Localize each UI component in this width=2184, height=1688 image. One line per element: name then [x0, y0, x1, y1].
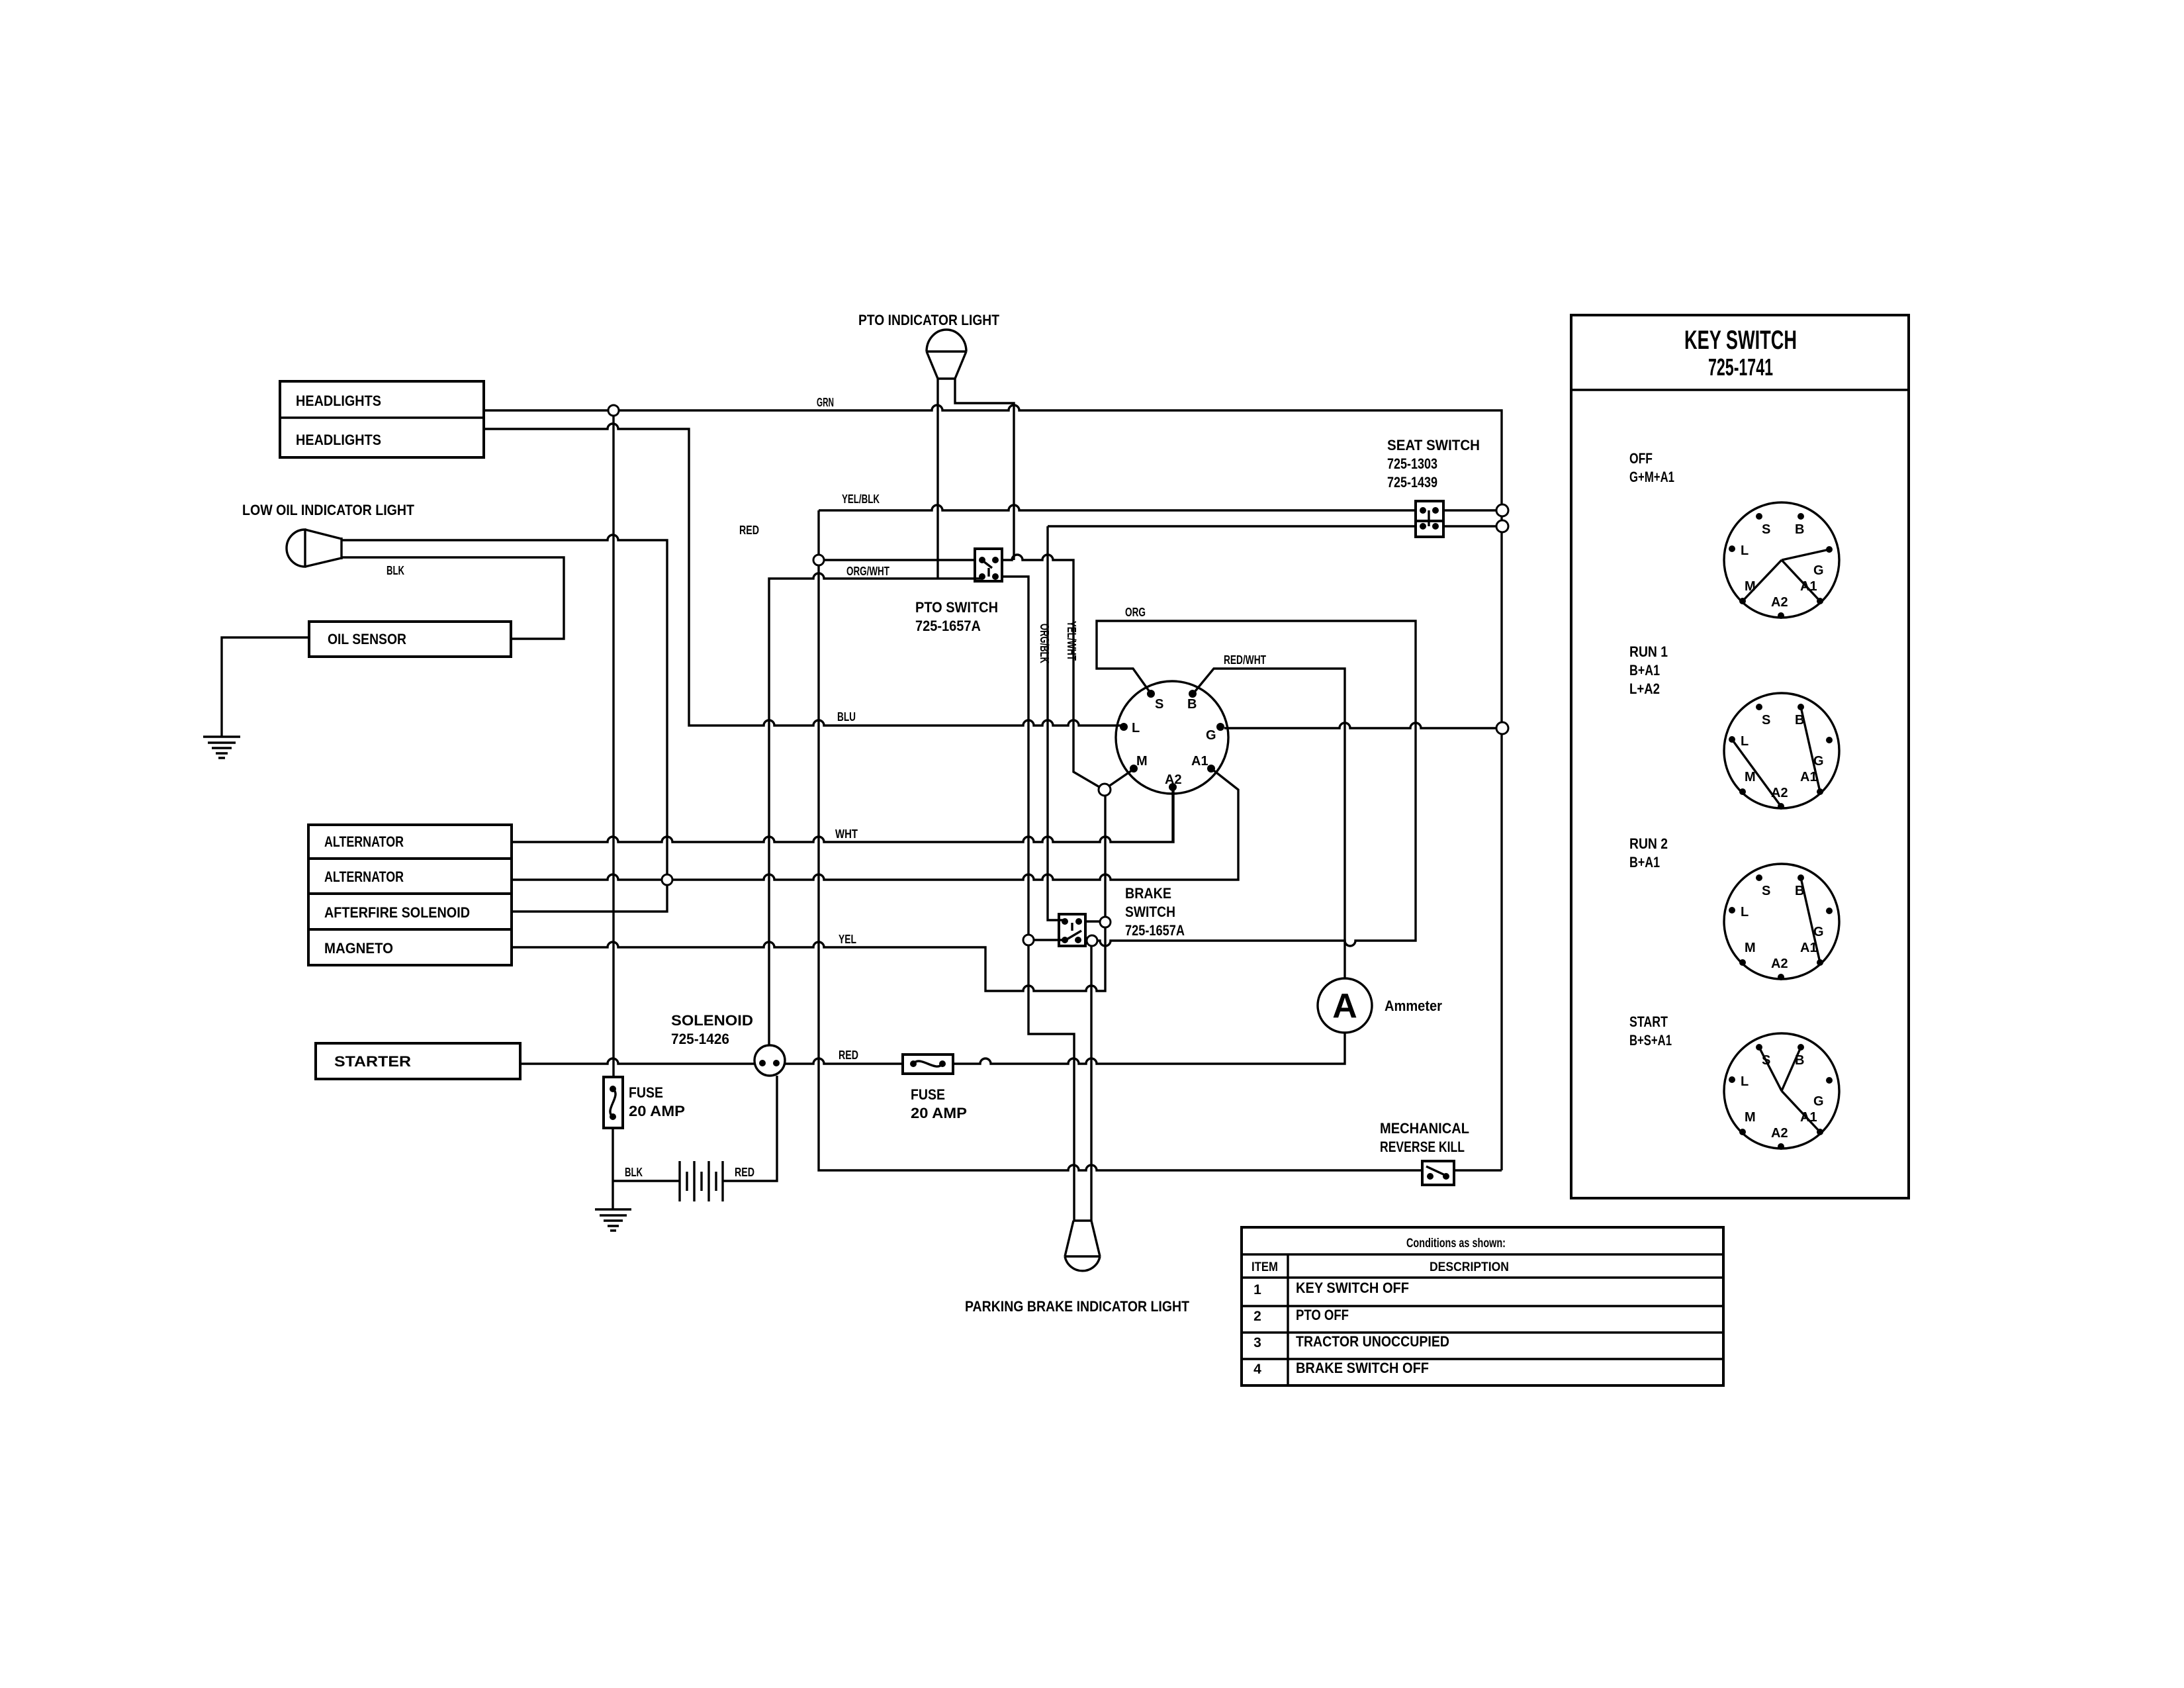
- wire seat switch to right bus: [1443, 510, 1497, 526]
- label LOW OIL INDICATOR LIGHT: [242, 502, 414, 518]
- ammeter: [1318, 978, 1442, 1033]
- svg-text:S: S: [1155, 697, 1163, 712]
- svg-text:MECHANICAL: MECHANICAL: [1380, 1120, 1469, 1137]
- alternator box 1: [308, 825, 512, 859]
- wire headlight 1 to GRN bus: [484, 405, 1502, 1170]
- key switch state RUN 1 labels: [1629, 643, 1668, 697]
- svg-text:M: M: [1745, 770, 1756, 784]
- svg-text:ORG/WHT: ORG/WHT: [846, 565, 889, 578]
- node seat junction A: [1496, 504, 1508, 516]
- svg-text:M: M: [1745, 1110, 1756, 1125]
- wire RED label (center vertical): [739, 524, 759, 537]
- svg-text:KEY SWITCH: KEY SWITCH: [1684, 326, 1797, 355]
- label PARKING BRAKE INDICATOR LIGHT: [965, 1298, 1189, 1315]
- svg-text:ALTERNATOR: ALTERNATOR: [324, 833, 404, 850]
- node brake left junction: [1023, 935, 1034, 945]
- svg-text:HEADLIGHTS: HEADLIGHTS: [296, 393, 381, 409]
- svg-text:A2: A2: [1165, 773, 1182, 787]
- wire RED/WHT label: [1224, 653, 1266, 667]
- svg-text:REVERSE KILL: REVERSE KILL: [1380, 1139, 1465, 1155]
- svg-text:YEL/BLK: YEL/BLK: [842, 492, 880, 506]
- key switch dial RUN 2: [1724, 864, 1839, 980]
- svg-text:725-1439: 725-1439: [1387, 474, 1437, 491]
- label PTO INDICATOR LIGHT: [858, 312, 999, 328]
- svg-text:1: 1: [1253, 1282, 1261, 1297]
- svg-text:B+A1: B+A1: [1629, 662, 1660, 679]
- conditions table row 3: [1253, 1333, 1449, 1350]
- svg-text:G: G: [1813, 563, 1824, 578]
- svg-text:ORG: ORG: [1125, 606, 1146, 619]
- node seat junction B: [1496, 520, 1508, 532]
- svg-text:725-1426: 725-1426: [671, 1031, 729, 1047]
- wire alternator2 to A1: [512, 771, 1238, 880]
- svg-text:WHT: WHT: [835, 827, 858, 841]
- brake switch 725-1657A: [1059, 885, 1185, 946]
- wire ORG label: [1125, 606, 1146, 619]
- svg-text:A2: A2: [1771, 595, 1788, 610]
- key switch terminal B: [1187, 690, 1197, 712]
- svg-text:FUSE: FUSE: [911, 1086, 945, 1103]
- node M junction: [1099, 784, 1111, 796]
- svg-text:2: 2: [1253, 1309, 1261, 1324]
- svg-text:YEL: YEL: [839, 933, 856, 946]
- svg-text:L: L: [1132, 721, 1140, 735]
- svg-text:L: L: [1741, 543, 1749, 558]
- node afterfire/alternator2 junction: [662, 874, 672, 885]
- svg-text:ORG/BLK: ORG/BLK: [1038, 624, 1051, 663]
- key switch state OFF labels: [1629, 450, 1674, 485]
- node G junction on right bus: [1496, 722, 1508, 734]
- wire RED net (solenoid through fuse to ammeter): [785, 1033, 1345, 1064]
- wire low-oil bottom lead to oil sensor: [341, 557, 564, 639]
- wire battery RED to solenoid: [722, 1076, 777, 1181]
- seat switch connector 2: [1416, 510, 1443, 537]
- svg-text:M: M: [1136, 754, 1148, 769]
- svg-text:ALTERNATOR: ALTERNATOR: [324, 868, 404, 885]
- fuse F2 20 AMP: [903, 1055, 967, 1121]
- conditions table header: [1406, 1237, 1506, 1250]
- wire main BLK bus (headlight junction to fuse/battery/ground): [613, 416, 680, 1209]
- wire YEL/WHT net (seat switch to brake switch): [1048, 526, 1416, 920]
- parking brake indicator light bulb: [1065, 1221, 1100, 1271]
- svg-text:B+A1: B+A1: [1629, 854, 1660, 870]
- mechanical reverse kill switch: [1380, 1120, 1469, 1185]
- wire brake switch bottom pin left: [1028, 939, 1065, 941]
- svg-text:STARTER: STARTER: [334, 1053, 411, 1070]
- wire BLK label (battery): [625, 1166, 643, 1179]
- node headlight junction: [608, 405, 619, 416]
- wire RED label (battery): [735, 1166, 754, 1179]
- svg-text:Conditions as shown:: Conditions as shown:: [1406, 1237, 1506, 1250]
- wire headlight 2 / BLU to key switch L: [484, 424, 1121, 726]
- wire low-oil top lead / afterfire net: [341, 535, 667, 912]
- ground (battery): [595, 1209, 631, 1231]
- svg-text:RUN 2: RUN 2: [1629, 835, 1668, 852]
- PTO switch 725-1657A: [915, 549, 1002, 634]
- conditions table: [1242, 1227, 1723, 1385]
- svg-text:SEAT SWITCH: SEAT SWITCH: [1387, 437, 1480, 453]
- seat switch label: [1387, 437, 1480, 491]
- key switch terminal L: [1120, 721, 1140, 735]
- afterfire solenoid box: [308, 894, 512, 929]
- wire GRN label: [817, 396, 834, 409]
- svg-text:A1: A1: [1191, 754, 1208, 769]
- svg-text:725-1657A: 725-1657A: [915, 618, 981, 634]
- wire RED label (fuse run): [839, 1049, 858, 1062]
- key switch terminal M: [1130, 754, 1148, 773]
- svg-text:PTO INDICATOR LIGHT: PTO INDICATOR LIGHT: [858, 312, 999, 328]
- key switch state RUN 2 labels: [1629, 835, 1668, 870]
- svg-text:L: L: [1741, 734, 1749, 749]
- svg-text:20 AMP: 20 AMP: [629, 1103, 685, 1119]
- wire ORG/WHT label: [846, 565, 889, 578]
- conditions table row 1: [1253, 1280, 1409, 1297]
- fuse F1 20 AMP: [604, 1077, 685, 1128]
- starter box: [316, 1043, 520, 1079]
- svg-text:BRAKE SWITCH OFF: BRAKE SWITCH OFF: [1296, 1360, 1429, 1376]
- wire PTO switch top pin net: [824, 555, 1101, 788]
- node brake top junction: [1100, 917, 1111, 927]
- wire WHT label: [835, 827, 858, 841]
- node brake right junction: [1087, 935, 1097, 946]
- svg-text:B+S+A1: B+S+A1: [1629, 1032, 1672, 1049]
- svg-text:GRN: GRN: [817, 396, 834, 409]
- svg-text:SOLENOID: SOLENOID: [671, 1012, 753, 1029]
- headlights boxes H1/H2: [280, 381, 484, 457]
- wire G terminal to right bus: [1224, 723, 1497, 728]
- wire YEL label: [839, 933, 856, 946]
- svg-text:4: 4: [1253, 1362, 1261, 1377]
- svg-text:L+A2: L+A2: [1629, 680, 1660, 697]
- svg-text:PARKING BRAKE INDICATOR LIGHT: PARKING BRAKE INDICATOR LIGHT: [965, 1298, 1189, 1315]
- key switch terminal A2: [1165, 773, 1182, 791]
- magneto box: [308, 929, 512, 965]
- svg-text:START: START: [1629, 1013, 1668, 1030]
- svg-text:PTO SWITCH: PTO SWITCH: [915, 599, 998, 616]
- svg-text:RED/WHT: RED/WHT: [1224, 653, 1266, 667]
- wire YEL/WHT label (rotated): [1065, 621, 1078, 661]
- svg-text:A: A: [1332, 987, 1357, 1025]
- oil sensor box: [309, 622, 511, 657]
- key switch circle: [1116, 681, 1228, 794]
- svg-text:L: L: [1741, 905, 1749, 919]
- svg-text:RED: RED: [739, 524, 759, 537]
- svg-text:S: S: [1762, 884, 1770, 898]
- key switch dial RUN 1: [1724, 693, 1839, 810]
- low oil indicator light bulb: [287, 530, 341, 567]
- svg-text:3: 3: [1253, 1335, 1261, 1350]
- svg-text:M: M: [1745, 941, 1756, 955]
- svg-text:G+M+A1: G+M+A1: [1629, 469, 1674, 485]
- wire brake switch top pin to M net: [1085, 920, 1099, 922]
- seat switch connector 1: [1416, 501, 1443, 521]
- key switch terminal S: [1147, 690, 1163, 712]
- wire ORG/WHT net (solenoid top to PTO switch): [769, 379, 981, 1045]
- PTO indicator light bulb: [927, 330, 966, 379]
- svg-text:B: B: [1795, 522, 1804, 537]
- key switch terminal A1: [1191, 754, 1215, 773]
- key switch state START labels: [1629, 1013, 1672, 1049]
- svg-text:RED: RED: [735, 1166, 754, 1179]
- svg-text:725-1303: 725-1303: [1387, 455, 1437, 472]
- svg-text:BLK: BLK: [625, 1166, 643, 1179]
- wire ORG net (S terminal to brake switch via right side): [1097, 621, 1416, 946]
- wire A2 stem: [1171, 790, 1173, 842]
- svg-text:BRAKE: BRAKE: [1125, 885, 1171, 902]
- wire M terminal diagonal: [1109, 771, 1132, 786]
- wire PTO lamp right lead: [955, 379, 1014, 560]
- svg-text:PTO OFF: PTO OFF: [1296, 1307, 1349, 1323]
- svg-text:SWITCH: SWITCH: [1125, 904, 1175, 920]
- svg-text:LOW OIL INDICATOR LIGHT: LOW OIL INDICATOR LIGHT: [242, 502, 414, 518]
- svg-text:S: S: [1762, 713, 1770, 727]
- key switch terminal G: [1206, 723, 1224, 743]
- svg-text:S: S: [1762, 522, 1770, 537]
- conditions table row 4: [1253, 1360, 1429, 1377]
- wire ORG/BLK net (PTO switch to brake switch and parking lamp): [1002, 577, 1074, 1221]
- svg-text:BLU: BLU: [837, 710, 856, 724]
- wire ORG/BLK label (rotated): [1038, 624, 1051, 663]
- svg-text:L: L: [1741, 1074, 1749, 1089]
- svg-text:ITEM: ITEM: [1251, 1260, 1278, 1274]
- conditions table row 2: [1253, 1307, 1349, 1324]
- svg-text:20 AMP: 20 AMP: [911, 1105, 967, 1121]
- svg-text:725-1657A: 725-1657A: [1125, 922, 1185, 939]
- key switch dial OFF: [1724, 502, 1839, 619]
- wire oil sensor to ground: [222, 637, 309, 737]
- svg-text:MAGNETO: MAGNETO: [324, 940, 393, 957]
- node PTO feed junction: [813, 555, 824, 565]
- svg-text:AFTERFIRE SOLENOID: AFTERFIRE SOLENOID: [324, 904, 470, 921]
- alternator box 2: [308, 859, 512, 894]
- battery: [680, 1161, 723, 1201]
- wire RED vertical / reverse kill run: [819, 510, 1502, 1170]
- wire YEL magneto to brake switch: [512, 789, 1105, 991]
- svg-text:OFF: OFF: [1629, 450, 1653, 467]
- svg-text:FUSE: FUSE: [629, 1084, 663, 1101]
- svg-text:OIL SENSOR: OIL SENSOR: [328, 631, 406, 647]
- key switch panel 725-1741: [1571, 315, 1909, 1198]
- svg-text:TRACTOR UNOCCUPIED: TRACTOR UNOCCUPIED: [1296, 1333, 1449, 1350]
- wire BLU label: [837, 710, 856, 724]
- solenoid 725-1426: [671, 1012, 785, 1076]
- svg-text:725-1741: 725-1741: [1708, 353, 1773, 381]
- key switch dial START: [1724, 1033, 1839, 1150]
- svg-text:DESCRIPTION: DESCRIPTION: [1430, 1260, 1509, 1274]
- svg-text:HEADLIGHTS: HEADLIGHTS: [296, 432, 381, 448]
- svg-text:A2: A2: [1771, 957, 1788, 971]
- svg-text:KEY SWITCH OFF: KEY SWITCH OFF: [1296, 1280, 1409, 1296]
- svg-text:RED: RED: [839, 1049, 858, 1062]
- wire YEL/BLK to seat switch: [819, 492, 1416, 510]
- svg-text:G: G: [1813, 1094, 1824, 1109]
- conditions table column heads: [1251, 1260, 1509, 1274]
- svg-text:YEL/WHT: YEL/WHT: [1065, 621, 1078, 661]
- wire parking lamp right lead: [1090, 946, 1092, 1221]
- svg-text:RUN 1: RUN 1: [1629, 643, 1668, 660]
- wire starter to solenoid: [520, 1058, 754, 1064]
- wire RED/WHT net (B terminal to ammeter): [1195, 669, 1345, 978]
- svg-text:G: G: [1206, 728, 1216, 743]
- svg-text:Ammeter: Ammeter: [1385, 998, 1442, 1014]
- wire WHT alternator1 to A2: [512, 790, 1173, 842]
- svg-text:A2: A2: [1771, 1126, 1788, 1141]
- ground (oil sensor): [203, 737, 240, 758]
- svg-text:BLK: BLK: [387, 564, 404, 577]
- svg-text:B: B: [1187, 697, 1197, 712]
- wire BLK label (low oil): [387, 564, 404, 577]
- svg-text:A2: A2: [1771, 786, 1788, 800]
